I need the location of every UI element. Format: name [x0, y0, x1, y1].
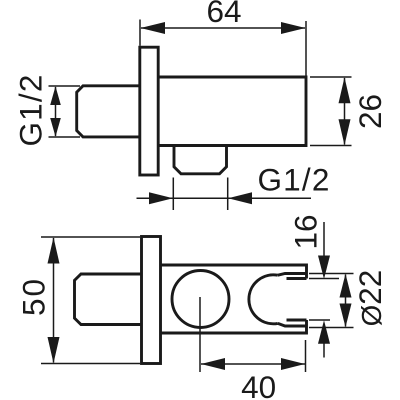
dim 64: left extension line — [139, 20, 141, 46]
dim 50: bottom extension line — [41, 363, 140, 365]
inlet connector (front view, chamfered) — [75, 274, 142, 325]
dim 16: up arrowhead — [318, 320, 330, 344]
dim G1/2 left: dimension line — [55, 87, 57, 136]
dim G1/2 left: top extension line — [49, 85, 81, 87]
svg-text:Ø22: Ø22 — [352, 270, 388, 326]
dim G1/2 left: down arrowhead — [50, 118, 61, 137]
holder body (front view) — [161, 265, 307, 333]
dim 64: left arrowhead — [141, 22, 166, 34]
dim G1/2 outlet: leader line — [137, 197, 312, 199]
dim G1/2 outlet: right-pointing arrowhead — [149, 192, 173, 204]
dim 16: extension line slot bottom lip — [309, 319, 330, 321]
svg-text:64: 64 — [206, 0, 241, 29]
dim 64: dimension line — [141, 27, 305, 29]
dim 16: down arrowhead — [318, 256, 330, 280]
wall flange (side view) — [140, 47, 158, 175]
dim G1/2 outlet: right extension line — [227, 178, 229, 211]
outlet stub (bottom, chamfered) — [174, 146, 227, 174]
centerline through boss — [199, 297, 201, 372]
dim O22: up arrowhead — [340, 274, 352, 298]
dim 64: right extension line — [305, 21, 307, 76]
dim 16: extension line slot top lip — [309, 278, 339, 280]
dim 26: dimension line — [344, 78, 346, 145]
wall flange (front view) — [142, 237, 161, 364]
svg-text:16: 16 — [288, 214, 324, 249]
svg-text:26: 26 — [352, 94, 388, 129]
dim 50: dimension line — [53, 238, 55, 363]
dim 40: dimension line — [201, 363, 305, 365]
dim G1/2 left: up arrowhead — [50, 86, 61, 105]
dim 16: upper shaft — [323, 222, 325, 256]
boss circle — [172, 271, 229, 328]
svg-text:G1/2: G1/2 — [257, 162, 330, 198]
svg-text:G1/2: G1/2 — [13, 73, 49, 146]
dim 50: down arrowhead — [48, 337, 60, 363]
dim 50: up arrowhead — [48, 237, 60, 263]
dim 26: down arrowhead — [339, 119, 351, 145]
dim O22: down arrowhead — [340, 304, 352, 328]
dim 40: right arrowhead — [281, 358, 305, 370]
svg-text:40: 40 — [241, 369, 276, 400]
dim G1/2 outlet: left-pointing arrowhead — [228, 192, 252, 204]
dim G1/2 left: bottom extension line — [49, 136, 81, 138]
fork mouth chamfer top — [278, 274, 307, 276]
dim 26: bottom extension line — [310, 145, 352, 147]
dim 40: left arrowhead — [201, 358, 225, 370]
dim 40: right extension line — [305, 340, 307, 372]
dim G1/2 outlet: left extension line — [172, 178, 174, 211]
inlet connector G1/2 (left, chamfered) — [77, 86, 140, 137]
fork hole arc — [249, 275, 278, 324]
fork mouth chamfer bottom — [278, 323, 307, 326]
dim 50: top extension line — [41, 236, 140, 238]
dim 16: lower shaft — [323, 344, 325, 358]
dim 64: right arrowhead — [281, 22, 306, 34]
body (side view) — [158, 77, 306, 146]
dim O22: top extension line — [309, 273, 354, 275]
dim O22: dimension line — [345, 275, 347, 327]
fork slot bottom lip — [287, 319, 307, 322]
dim O22: bottom extension line — [309, 327, 354, 329]
dim 26: top extension line — [310, 76, 352, 78]
svg-text:50: 50 — [16, 277, 52, 316]
fork slot top lip — [287, 277, 307, 280]
dim 26: up arrowhead — [339, 77, 351, 103]
